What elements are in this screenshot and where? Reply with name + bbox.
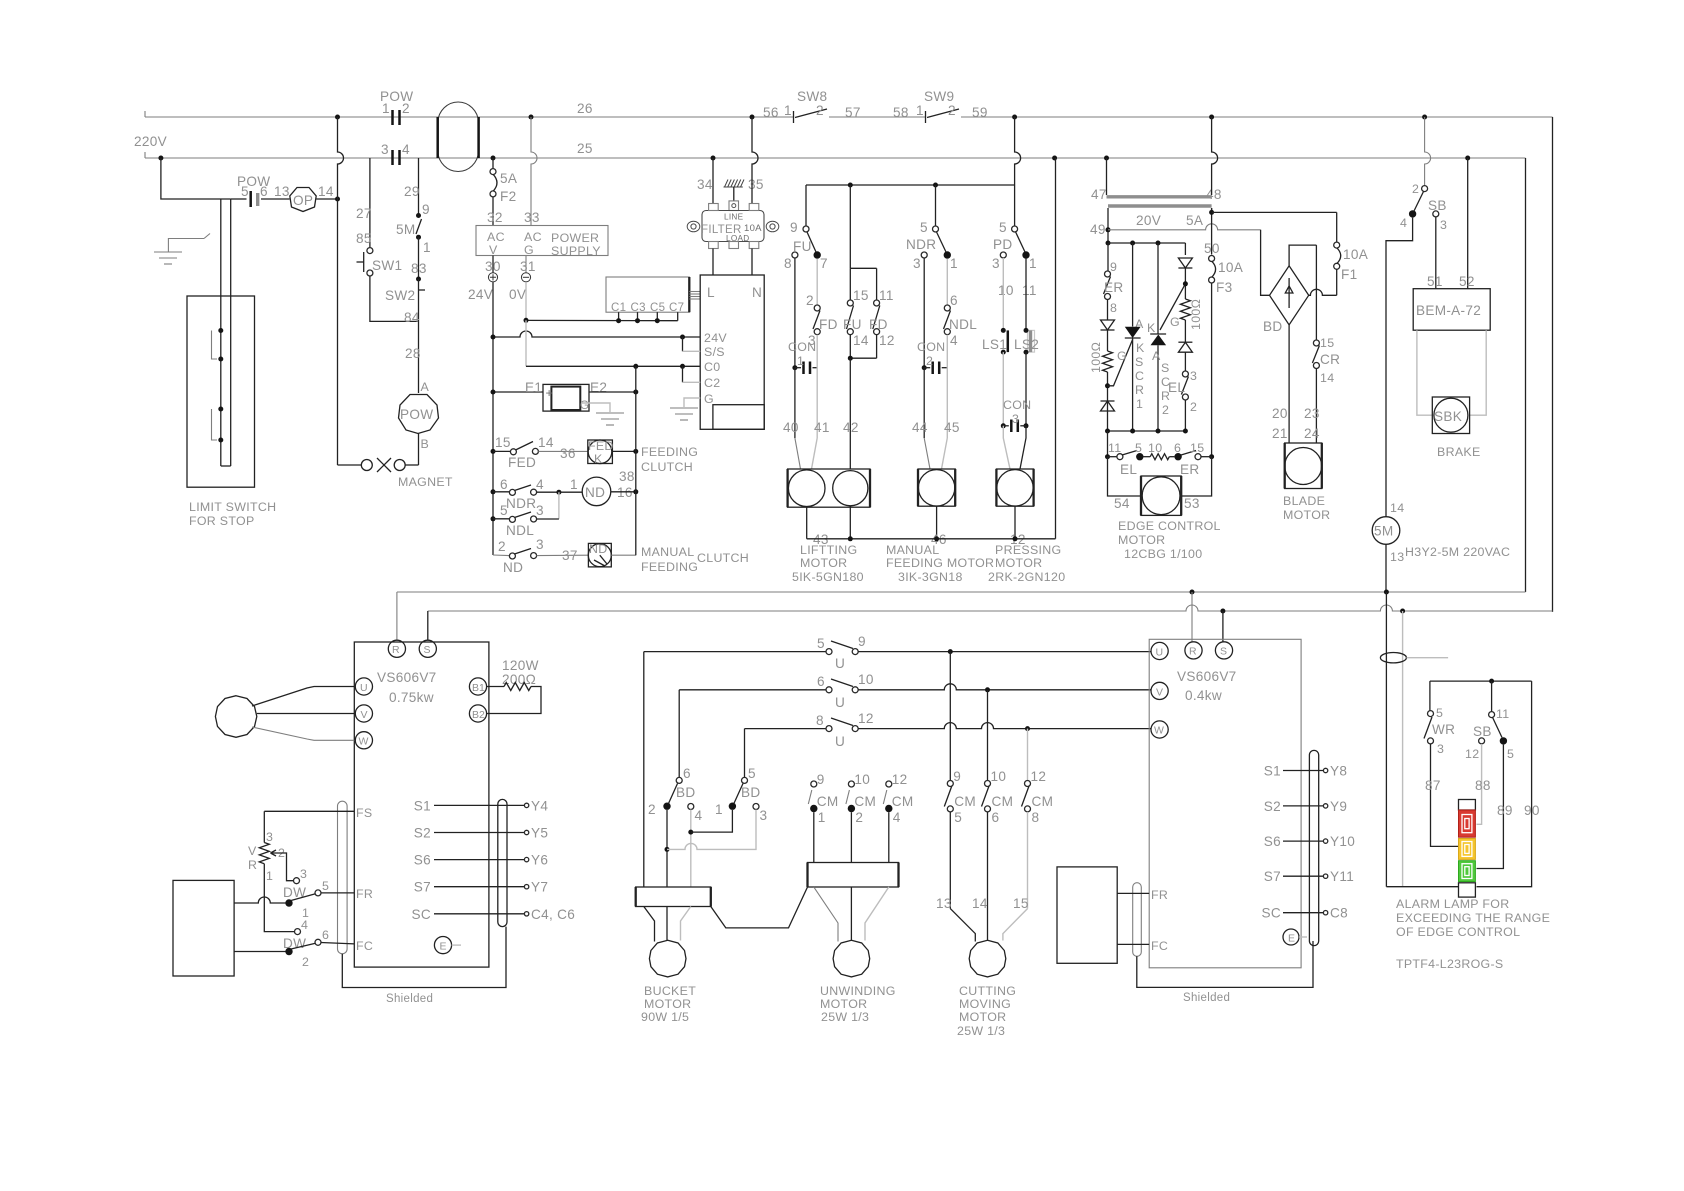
- svg-text:U: U: [835, 734, 845, 749]
- svg-text:32: 32: [487, 210, 503, 225]
- svg-text:U: U: [835, 656, 845, 671]
- svg-text:POW: POW: [380, 89, 413, 104]
- wire lifting leads: [794, 368, 796, 438]
- svg-text:MOTOR: MOTOR: [995, 556, 1042, 570]
- svg-text:BRAKE: BRAKE: [1437, 445, 1481, 459]
- svg-text:15: 15: [1320, 336, 1334, 350]
- selector NDR: [933, 226, 939, 232]
- node on line26 x1424: [1422, 115, 1427, 120]
- wire SCR inner bus y243: [1108, 242, 1185, 244]
- svg-text:E: E: [440, 941, 447, 953]
- svg-text:16: 16: [617, 485, 633, 500]
- contact ND 2-3: [509, 553, 515, 559]
- svg-text:5: 5: [500, 503, 508, 518]
- node CON2 left: [922, 365, 927, 370]
- contact FU aux 15-14: [847, 300, 853, 306]
- svg-text:MOTOR: MOTOR: [1118, 533, 1165, 547]
- svg-text:C7: C7: [669, 302, 684, 314]
- svg-text:49: 49: [1090, 222, 1106, 237]
- wire line 25 lower 220V bus: [145, 157, 1526, 159]
- diode D1 down: [1107, 300, 1109, 321]
- node on line26 x531: [529, 115, 534, 120]
- svg-text:R: R: [248, 858, 257, 872]
- contact CON 2: [924, 367, 930, 369]
- svg-text:G: G: [704, 392, 714, 406]
- svg-text:FR: FR: [1151, 888, 1168, 902]
- wire double drop to limit switch: [220, 199, 222, 296]
- svg-text:7: 7: [820, 256, 828, 271]
- svg-text:5M: 5M: [1374, 524, 1393, 539]
- wire 47 drop: [1106, 158, 1108, 195]
- wire motor to V: [257, 713, 355, 715]
- wire row1 to inverter2 U: [858, 651, 1151, 653]
- motor lifting circle 1: [788, 470, 825, 507]
- svg-text:85: 85: [356, 231, 372, 246]
- inverter U2 terminal V: [1151, 682, 1168, 699]
- svg-text:14: 14: [972, 896, 988, 911]
- contact 5M timer: [416, 219, 422, 234]
- inverter U1 terminal U: [355, 678, 372, 695]
- wire LS1 gray column: [1002, 258, 1004, 330]
- wire battery G to ground: [581, 403, 610, 412]
- svg-text:1: 1: [950, 256, 958, 271]
- wire 52 from line25: [1467, 158, 1469, 289]
- contact FD aux 11-12: [874, 300, 880, 306]
- svg-text:FR: FR: [356, 887, 373, 901]
- node E2: [633, 390, 638, 395]
- svg-text:1: 1: [715, 802, 723, 817]
- svg-text:H3Y2-5M 220VAC: H3Y2-5M 220VAC: [1405, 545, 1510, 559]
- wire PD drop: [1014, 228, 1016, 230]
- wire 84 to POW coil A: [418, 321, 420, 393]
- bridge rectifier BD: [1270, 266, 1309, 325]
- motor manual feeding box: [918, 469, 955, 506]
- svg-text:L: L: [707, 285, 715, 300]
- power supply PS1 box: [476, 226, 608, 256]
- svg-text:1: 1: [797, 354, 804, 368]
- node on line26 x1211: [1209, 115, 1214, 120]
- svg-text:4: 4: [695, 808, 703, 823]
- wire DW2-6 to FC: [321, 943, 355, 944]
- svg-text:0.75kw: 0.75kw: [389, 690, 434, 705]
- svg-text:EDGE CONTROL: EDGE CONTROL: [1118, 519, 1221, 533]
- svg-text:100Ω: 100Ω: [1089, 342, 1103, 373]
- limit switch contact nodes: [218, 328, 223, 333]
- motor unwinding bracket box: [808, 863, 899, 888]
- svg-text:37: 37: [562, 548, 578, 563]
- wire U row3 y728: [745, 728, 827, 730]
- contact NDL 5-3: [493, 518, 509, 520]
- svg-text:Shielded: Shielded: [386, 993, 433, 1005]
- svg-text:84: 84: [404, 310, 420, 325]
- svg-text:12: 12: [858, 711, 874, 726]
- svg-text:20V: 20V: [1136, 213, 1161, 228]
- contact NDR 6-4: [493, 491, 509, 493]
- svg-text:6: 6: [322, 928, 329, 942]
- svg-text:11: 11: [879, 288, 894, 303]
- svg-text:Y6: Y6: [531, 853, 548, 868]
- svg-text:V: V: [489, 243, 498, 257]
- selector SB alarm: [1489, 712, 1495, 718]
- node 83: [416, 277, 421, 282]
- svg-text:9: 9: [858, 634, 866, 649]
- diode D3 down: [1178, 258, 1192, 268]
- svg-text:AC: AC: [524, 230, 542, 244]
- wire E2 to node: [589, 391, 636, 393]
- wire bus to E1: [493, 391, 543, 393]
- svg-text:FED: FED: [508, 455, 536, 470]
- svg-text:S2: S2: [1264, 799, 1281, 814]
- svg-text:3: 3: [1190, 369, 1197, 383]
- node 24V tap: [680, 335, 685, 340]
- svg-text:6: 6: [950, 293, 958, 308]
- svg-text:U: U: [835, 695, 845, 710]
- wire to WR: [1429, 681, 1431, 711]
- svg-text:F3: F3: [1216, 280, 1232, 295]
- svg-text:1: 1: [1136, 397, 1143, 411]
- node on line25 x1106: [1104, 156, 1109, 161]
- svg-text:57: 57: [845, 105, 861, 120]
- svg-text:FED: FED: [588, 439, 614, 453]
- svg-text:Shielded: Shielded: [1183, 992, 1230, 1004]
- svg-text:UNWINDING: UNWINDING: [820, 984, 896, 998]
- wire bridge right to F1: [1309, 289, 1337, 295]
- wire G ground stub: [684, 398, 700, 407]
- svg-text:BD: BD: [741, 785, 760, 800]
- wire NDR-3 down to CON2: [923, 258, 925, 368]
- wire x850 column with FU/FD pair: [849, 185, 851, 268]
- svg-text:51: 51: [1427, 274, 1443, 289]
- motor edge control circle: [1142, 477, 1180, 515]
- wire ND coil to bus: [611, 491, 636, 493]
- svg-text:47: 47: [1091, 187, 1107, 202]
- wire middle bus A y592: [397, 591, 1526, 593]
- svg-text:AC: AC: [487, 230, 505, 244]
- node on line25 x1054: [1052, 156, 1057, 161]
- wire SW1 column from line25: [369, 158, 371, 248]
- svg-text:23: 23: [1304, 406, 1320, 421]
- svg-text:29: 29: [404, 184, 420, 199]
- svg-text:9: 9: [1110, 260, 1117, 274]
- svg-text:VS606V7: VS606V7: [377, 670, 437, 685]
- svg-text:3: 3: [1440, 218, 1447, 232]
- svg-text:S2: S2: [414, 826, 431, 841]
- svg-text:25W 1/3: 25W 1/3: [957, 1024, 1005, 1038]
- wire FD gray column: [816, 259, 818, 305]
- pin S2 wire to Y5: [434, 832, 524, 834]
- fuse F2 5A: [492, 158, 494, 169]
- inverter U1 VS606V7 box: [354, 642, 489, 967]
- wire ND contact to coil: [537, 554, 589, 556]
- svg-text:11: 11: [1022, 283, 1037, 298]
- svg-text:R: R: [1135, 383, 1144, 397]
- svg-text:LS1: LS1: [982, 337, 1007, 352]
- node C0 taps: [633, 364, 638, 369]
- svg-text:CUTTING: CUTTING: [959, 984, 1016, 998]
- wire row2 to inverter2 V: [858, 684, 1151, 690]
- svg-text:S: S: [1220, 646, 1227, 658]
- cable bundle ellipse: [1380, 653, 1406, 663]
- wire manual return: [936, 506, 938, 539]
- node on line26 x752: [750, 115, 755, 120]
- wire 5M column top: [418, 158, 420, 214]
- svg-text:5: 5: [1507, 747, 1514, 761]
- svg-text:5A: 5A: [1186, 213, 1204, 228]
- svg-text:220V: 220V: [134, 134, 167, 149]
- wire box to DW1: [234, 897, 285, 903]
- wire U row1 y651: [644, 651, 826, 653]
- svg-text:S: S: [1161, 361, 1170, 375]
- svg-text:SW1: SW1: [372, 258, 402, 273]
- motor pressing box: [996, 469, 1033, 506]
- gate lead SCR2: [1160, 284, 1185, 330]
- wire FU-8 down to CON1: [794, 258, 796, 368]
- svg-text:C3: C3: [631, 302, 646, 314]
- node on line25 x1467: [1465, 156, 1470, 161]
- wire C7 stub: [677, 312, 679, 321]
- inverter U1 terminal B1: [469, 678, 486, 695]
- svg-text:FU: FU: [793, 239, 812, 254]
- lamp red section: [1459, 810, 1476, 837]
- lamp yellow section: [1459, 839, 1476, 860]
- svg-text:9: 9: [953, 769, 961, 784]
- svg-text:10A: 10A: [1343, 247, 1369, 262]
- svg-text:24: 24: [1304, 426, 1320, 441]
- wire bucket feed column x644: [643, 652, 645, 887]
- wire CM5 down: [949, 812, 951, 909]
- svg-text:5: 5: [954, 810, 962, 825]
- svg-text:28: 28: [405, 346, 421, 361]
- shield drain wire U1: [342, 927, 506, 988]
- wire C5 stub: [656, 312, 658, 321]
- svg-text:3: 3: [266, 830, 273, 844]
- svg-text:4: 4: [893, 810, 901, 825]
- wire C2 stub: [682, 366, 684, 382]
- svg-text:MANUAL: MANUAL: [886, 543, 939, 557]
- svg-text:14: 14: [1390, 501, 1404, 515]
- potentiometer row EL ER: [1108, 456, 1117, 458]
- wire 24V row: [493, 331, 700, 337]
- svg-text:LINE: LINE: [724, 213, 744, 222]
- svg-text:BUCKET: BUCKET: [644, 984, 696, 998]
- node row2: [985, 687, 990, 692]
- svg-text:5: 5: [1436, 706, 1443, 720]
- wire SB12 to red lamp 88 gray: [1477, 744, 1482, 824]
- filter ear right: [766, 221, 779, 232]
- wire 24V bus down: [492, 282, 494, 555]
- svg-text:3: 3: [992, 256, 1000, 271]
- svg-text:3: 3: [536, 537, 544, 552]
- svg-text:OP: OP: [293, 193, 313, 208]
- diode D4 up: [1178, 342, 1192, 352]
- svg-text:35: 35: [748, 177, 764, 192]
- transformer secondary box 20V 5A: [1108, 208, 1212, 230]
- power supply PS2 box: [700, 275, 764, 429]
- node NDR row left: [491, 489, 496, 494]
- svg-text:52: 52: [1459, 274, 1475, 289]
- wire SB-4 to 5M column: [1386, 218, 1413, 517]
- wire CR to blade motor: [1315, 369, 1317, 444]
- svg-text:FU: FU: [843, 317, 862, 332]
- wire SB5 to green lamp 89: [1477, 745, 1504, 869]
- pin S7 wire to Y11: [1283, 875, 1323, 877]
- svg-text:FEEDING: FEEDING: [641, 560, 698, 574]
- svg-text:10A: 10A: [1218, 260, 1244, 275]
- filter ground connector: [733, 187, 735, 201]
- svg-text:21: 21: [1272, 426, 1288, 441]
- svg-text:5: 5: [999, 220, 1007, 235]
- svg-text:CM: CM: [892, 794, 914, 809]
- wire BD3 to BD2 link gray: [667, 810, 756, 850]
- svg-text:MOTOR: MOTOR: [800, 556, 847, 570]
- pin S6 wire to Y10: [1283, 840, 1323, 842]
- svg-text:W: W: [1154, 725, 1164, 737]
- wire vertical x337 line26 to magnet row: [338, 117, 344, 465]
- svg-text:14: 14: [853, 333, 869, 348]
- svg-text:POW: POW: [400, 407, 433, 422]
- svg-text:1: 1: [266, 869, 273, 883]
- inverter U2 VS606V7 box: [1149, 639, 1301, 968]
- svg-text:S6: S6: [1264, 834, 1281, 849]
- inverter U1 terminal W: [355, 732, 372, 749]
- wire 90 right rail: [1477, 681, 1532, 887]
- svg-text:58: 58: [893, 105, 909, 120]
- svg-text:40: 40: [783, 420, 799, 435]
- wire 0V capacitor bus: [526, 319, 678, 321]
- wire ND row: [493, 554, 509, 557]
- svg-text:WR: WR: [1432, 722, 1455, 737]
- contact WR 5-3 NC: [1428, 711, 1434, 717]
- svg-text:4: 4: [536, 477, 544, 492]
- transformer primary bar: [1107, 195, 1212, 198]
- svg-text:CM: CM: [854, 794, 876, 809]
- wire manual feeding leads: [923, 368, 925, 438]
- contact CON 3: [1001, 423, 1006, 428]
- node ND right: [633, 489, 638, 494]
- svg-text:F1: F1: [1341, 267, 1357, 282]
- svg-text:14: 14: [538, 435, 554, 450]
- svg-text:1: 1: [916, 103, 924, 118]
- wire bus B to inverter2 S: [1222, 611, 1224, 642]
- svg-text:SC: SC: [412, 907, 431, 922]
- svg-text:12: 12: [879, 333, 895, 348]
- wire lamp base feed: [1386, 886, 1458, 888]
- motor lifting circle 2: [833, 471, 868, 506]
- wire motor to U: [252, 687, 354, 707]
- node row1: [948, 649, 953, 654]
- svg-text:5: 5: [748, 766, 756, 781]
- contact EL 3-2: [1182, 371, 1188, 377]
- wire FU/FD pair bottom bracket: [849, 335, 851, 359]
- wire to SB11: [1491, 681, 1493, 712]
- wire bridge bottom to blade motor: [1288, 325, 1290, 443]
- contact U 6-10 row2: [826, 687, 832, 693]
- node bus B: [1220, 609, 1225, 614]
- fuse F3 10A: [1209, 256, 1215, 262]
- contact CR 15-14: [1313, 340, 1319, 346]
- svg-text:8: 8: [1110, 301, 1117, 315]
- motor cutting circle: [969, 940, 1006, 977]
- battery outer box: [543, 384, 589, 411]
- svg-text:3: 3: [808, 333, 816, 348]
- svg-text:Y5: Y5: [531, 826, 548, 841]
- node G1: [1107, 372, 1109, 431]
- svg-text:SB: SB: [1473, 724, 1492, 739]
- transformer right bar: [477, 117, 480, 158]
- limit switch LS2: [1025, 258, 1027, 330]
- terminal 30 plus: [492, 256, 494, 273]
- svg-text:36: 36: [560, 446, 576, 461]
- svg-text:S7: S7: [1264, 869, 1281, 884]
- svg-text:G: G: [1117, 349, 1127, 363]
- wire ND coil to bus: [611, 554, 636, 556]
- wire middle bus B y611: [428, 605, 1553, 611]
- svg-text:K: K: [1147, 321, 1156, 335]
- wire bus B to inverter1 S: [427, 611, 429, 640]
- wire BD1 feed from row2: [678, 690, 680, 778]
- svg-text:13: 13: [936, 896, 952, 911]
- inverter U2 terminal E: [1283, 929, 1299, 945]
- wire line 26 right drop to lower bus: [1552, 117, 1554, 612]
- svg-text:25W 1/3: 25W 1/3: [821, 1010, 869, 1024]
- shield slot right S-row: [498, 799, 507, 926]
- motor POW (paper feed): [399, 395, 439, 434]
- wire bus y185: [806, 184, 1015, 186]
- wire bridge top loop: [1289, 245, 1316, 266]
- svg-text:MOVING: MOVING: [959, 997, 1011, 1011]
- lamp green section: [1459, 861, 1476, 882]
- wire VR wiper to DW1-3: [277, 853, 294, 881]
- motor bucket leads: [644, 907, 655, 942]
- diode D2 up: [1101, 401, 1115, 411]
- svg-text:NDL: NDL: [506, 523, 534, 538]
- svg-text:FEEDING: FEEDING: [641, 445, 698, 459]
- svg-text:S/S: S/S: [704, 345, 725, 359]
- wire DW1-5 to FR: [321, 892, 355, 894]
- svg-text:CON: CON: [1003, 398, 1031, 412]
- svg-text:V: V: [361, 709, 368, 721]
- svg-text:N: N: [752, 285, 762, 300]
- svg-text:E2: E2: [590, 380, 607, 395]
- wire VR bottom to DW2-4: [264, 864, 294, 932]
- svg-text:3: 3: [300, 867, 307, 881]
- svg-text:2: 2: [1190, 400, 1197, 414]
- svg-text:50: 50: [1204, 241, 1220, 256]
- wire BD4 gray down: [690, 810, 692, 888]
- svg-text:2RK-2GN120: 2RK-2GN120: [988, 570, 1065, 584]
- wire row3 to inverter2 W: [858, 723, 1151, 729]
- wire gray sec to bridge: [1261, 230, 1270, 295]
- limit switch LS1: [1001, 328, 1006, 333]
- wire U row2 y690: [679, 689, 826, 691]
- svg-text:20: 20: [1272, 406, 1288, 421]
- wire BEM to SBK right: [1470, 330, 1487, 415]
- inverter U2 terminal R: [1185, 642, 1202, 659]
- svg-text:SB: SB: [1428, 198, 1447, 213]
- svg-text:0.4kw: 0.4kw: [1185, 688, 1222, 703]
- svg-text:100Ω: 100Ω: [1189, 299, 1203, 330]
- node on line26 x337: [335, 115, 340, 120]
- wire motor return bus: [807, 538, 1056, 540]
- svg-text:2: 2: [948, 103, 956, 118]
- svg-text:C4, C6: C4, C6: [531, 907, 575, 922]
- node 1: [416, 235, 421, 240]
- limit switch box: [187, 296, 255, 487]
- wire bus A to inverter2 R gray: [1191, 592, 1193, 642]
- node on line26 x1014: [1012, 115, 1017, 120]
- wire BD2 down: [666, 810, 668, 887]
- svg-text:S: S: [1135, 355, 1144, 369]
